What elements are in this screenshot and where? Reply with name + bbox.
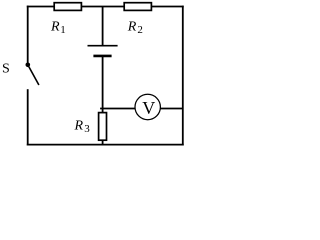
wire voltmeter left <box>100 108 136 110</box>
wire right <box>182 6 184 146</box>
wire bottom <box>27 144 184 146</box>
voltmeter V circle <box>135 94 160 119</box>
wire top <box>27 6 184 8</box>
resistor R3 <box>99 113 107 141</box>
svg-text:3: 3 <box>84 123 90 135</box>
wire middle branch lower <box>102 56 104 114</box>
wire voltmeter right <box>160 108 183 110</box>
wire left upper <box>27 6 29 65</box>
svg-text:R: R <box>50 19 60 34</box>
battery short plate <box>93 55 111 58</box>
svg-text:1: 1 <box>60 24 65 36</box>
wire middle branch upper <box>102 7 104 46</box>
svg-text:V: V <box>142 98 155 118</box>
switch S node dot <box>26 63 31 68</box>
svg-text:S: S <box>2 62 10 77</box>
svg-text:2: 2 <box>137 24 143 36</box>
switch S blade <box>29 66 39 85</box>
svg-text:R: R <box>127 19 137 34</box>
svg-text:R: R <box>74 119 84 134</box>
resistor R2 <box>124 3 151 11</box>
battery long plate <box>88 45 118 47</box>
wire left lower <box>27 89 29 145</box>
wire R3 bottom stub <box>102 139 104 145</box>
resistor R1 <box>54 3 81 11</box>
